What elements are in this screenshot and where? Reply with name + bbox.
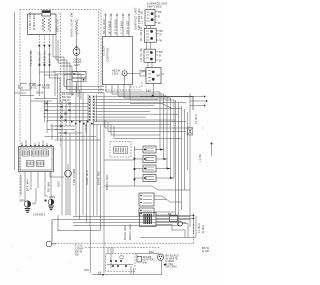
oven control connector dashed box (110, 141, 131, 157)
surface switch SW2 (144, 28, 156, 42)
wire: bends from T1 leads to block (39, 72, 60, 103)
svg-text:GRN: GRN (19, 199, 25, 203)
second bus line with diagonal (130, 104, 172, 109)
arrowheads on exits (160, 149, 173, 180)
wire: runs from connector pins to right bus (96, 97, 191, 120)
wire: feeds from bundle to element boxes (134, 150, 143, 179)
svg-text:R: R (160, 33, 162, 37)
small sensor pair on bottom run (98, 272, 101, 275)
link box at edge (140, 71, 146, 77)
wire: bottom dashed enclosure (52, 220, 194, 244)
svg-text:W TIMER: W TIMER (107, 21, 111, 34)
element box 1 (143, 146, 156, 153)
svg-text:BROIL IGN: BROIL IGN (128, 224, 132, 240)
svg-text:BLK WH: BLK WH (26, 179, 30, 191)
svg-text:RD: RD (75, 253, 79, 257)
svg-text:L1 BLK: L1 BLK (197, 223, 201, 233)
wire: right side border vertical (189, 94, 191, 228)
indicator circle on wire (65, 170, 72, 177)
console dashed bottom (99, 89, 142, 91)
element box 2 (143, 156, 156, 163)
center wire bundle verticals (62, 87, 104, 244)
svg-text:OVEN LIGHT SW: OVEN LIGHT SW (70, 12, 74, 37)
svg-text:GR: GR (32, 202, 36, 206)
right bus verticals (176, 100, 188, 226)
wire: horizontal runs to bundle (61, 87, 104, 93)
wire: cabinet left border inner (19, 10, 21, 199)
small mark under circle (164, 264, 167, 266)
junction bus with dots (133, 146, 135, 186)
indicator lamp inside (122, 71, 127, 76)
SW1 right stubs (155, 12, 158, 23)
svg-text:CONTROL: CONTROL (106, 47, 110, 62)
junction dot (44, 199, 46, 201)
svg-text:BAKE IGN: BAKE IGN (123, 225, 127, 240)
svg-text:BROIL WH: BROIL WH (105, 175, 109, 190)
transformer T1 box (28, 14, 57, 35)
wire: bends joining left (64, 75, 77, 93)
spark module dashed box (106, 254, 135, 271)
svg-text:CHASSIS: CHASSIS (33, 213, 45, 217)
ground symbol 1 (25, 209, 31, 213)
svg-text:L1 BK: L1 BK (198, 153, 202, 162)
element box 4 (143, 175, 156, 182)
svg-text:Y 7 240V: Y 7 240V (119, 21, 123, 34)
svg-text:BK: BK (158, 10, 162, 14)
wire: drops from control box bottom bending right (106, 85, 174, 178)
wire: cabinet top dashed border (20, 9, 101, 11)
svg-text:GRY 120: GRY 120 (56, 19, 60, 32)
wire: SW4 drop to bus (152, 84, 154, 97)
ground symbol 2 (48, 206, 54, 210)
svg-text:GRY: GRY (57, 180, 61, 187)
junction dot row (71, 121, 73, 123)
wire: left border taps (15, 84, 37, 96)
wire below lamp (76, 56, 78, 72)
burner hatch block (144, 214, 151, 224)
clock control box U1 (103, 37, 133, 85)
wire: long horizontal bus lines (52, 216, 190, 225)
wire: verticals into spark area (90, 226, 111, 273)
svg-text:R GR: R GR (202, 249, 209, 253)
junction dots (38, 45, 40, 47)
dashed corner (130, 82, 142, 87)
svg-text:4D 5E: 4D 5E (42, 86, 50, 90)
svg-text:120V: 120V (112, 71, 119, 75)
svg-text:2B 1A: 2B 1A (36, 91, 44, 95)
svg-text:BK CLOCK: BK CLOCK (102, 18, 106, 34)
svg-text:LR 3C 5E: LR 3C 5E (139, 48, 143, 62)
svg-text:SURF BLK: SURF BLK (85, 170, 89, 185)
junction circle on corner (46, 241, 52, 247)
wire: exits to right bus (156, 150, 174, 179)
small component box (170, 216, 178, 222)
SW3 right stubs (156, 52, 159, 61)
far right dot and stub (211, 143, 213, 145)
svg-text:BLK: BLK (149, 250, 154, 254)
small box with X on right (188, 128, 193, 136)
pin wires entering top with arrows (106, 14, 130, 37)
svg-text:RF 2B 4D: RF 2B 4D (139, 27, 143, 41)
coil L1 zigzag (42, 17, 45, 32)
svg-text:SWITCHES: SWITCHES (147, 4, 162, 8)
svg-text:CLOCK: CLOCK (102, 45, 106, 56)
wire: junction row leads (93, 122, 186, 125)
svg-text:R 9 OVEN: R 9 OVEN (113, 19, 117, 34)
small circle component (178, 221, 183, 226)
ladder verticals (45, 100, 71, 141)
wire: mid horizontal runs (104, 160, 190, 190)
pin dot row on relay box top (21, 145, 22, 146)
small arrow mark on bus (151, 95, 155, 98)
junction dots second row (39, 64, 41, 66)
wire from R1 to lamp (76, 33, 78, 48)
svg-text:L1 BLK: L1 BLK (194, 114, 198, 124)
wire: top link to igniter row (135, 254, 159, 257)
connector pin X marks col 2 (93, 96, 95, 121)
igniter terminal box (137, 257, 142, 263)
wire: console dashed right edge pair (98, 11, 100, 94)
svg-text:L1 BLK 120V: L1 BLK 120V (28, 11, 32, 30)
svg-text:W: W (158, 21, 161, 25)
thermostat boxes lower right (139, 193, 154, 206)
right bus verticals bottom (194, 214, 197, 238)
svg-text:120V: 120V (74, 63, 81, 67)
wire: cabinet left border outer (14, 12, 16, 170)
enclosure bottom right line (140, 236, 196, 238)
wire: interbox links (147, 26, 153, 68)
ladder rungs with X joints (44, 103, 89, 120)
coil L2 zigzag (48, 17, 51, 32)
wire: leads continue below labels (31, 47, 50, 85)
wire: feeds into relay box top (22, 84, 51, 147)
wire: dashed rail (85, 246, 160, 248)
wire from lamp to selector (125, 73, 141, 84)
scan speckles (12, 246, 13, 247)
relay coil row 2 (27, 161, 35, 167)
wire: leads to right bus (156, 216, 194, 238)
svg-text:BR: BR (157, 74, 161, 78)
wire: stub run (57, 215, 101, 231)
relay board K1 outer box (19, 147, 54, 172)
wire: right border taps with dots (190, 97, 205, 106)
X junction marks (46, 102, 71, 134)
left tick marks (131, 266, 134, 274)
chassis lamp G2 circle (48, 199, 54, 205)
connector P1 guide columns (88, 95, 96, 123)
door switch box (72, 72, 86, 79)
svg-text:SW: SW (143, 260, 148, 264)
svg-text:R: R (158, 15, 160, 19)
svg-text:W: W (160, 39, 163, 43)
wire: lower bend runs (105, 120, 188, 139)
connector pin X marks col 1 (89, 96, 91, 121)
surface switch SW3 (144, 49, 156, 62)
wire: cross bends below ladder (45, 120, 63, 140)
svg-text:R: R (159, 54, 161, 58)
long bus line below switches (140, 97, 193, 111)
relay coil row 1 (22, 150, 30, 156)
wire: console left dashed edge (60, 13, 62, 147)
svg-text:GR GRN: GR GRN (166, 265, 177, 269)
wire: bottom run (92, 260, 161, 274)
svg-text:L1 2A 3B: L1 2A 3B (140, 11, 144, 24)
svg-text:BK: BK (160, 29, 164, 33)
wire: diagonals joining bus (154, 196, 182, 215)
wire: dashed leads below T1 (39, 36, 49, 45)
SW2 right stubs (156, 31, 159, 41)
chassis lamp G1 circle (24, 201, 30, 207)
oven selector switch SW4 (146, 68, 161, 84)
svg-text:BLK: BLK (18, 86, 23, 90)
svg-text:SURFACE UNIT: SURFACE UNIT (133, 7, 137, 30)
wire: extra nested runs above ladder (31, 72, 81, 102)
svg-text:RD GY: RD GY (62, 98, 71, 102)
oven burner box right (140, 213, 157, 227)
svg-text:GRN: GRN (49, 195, 55, 199)
svg-text:BR 6 SET: BR 6 SET (125, 20, 129, 34)
svg-text:IGN: IGN (84, 268, 89, 272)
svg-text:RD WH: RD WH (47, 182, 51, 192)
terminal block on T1 (42, 11, 51, 17)
svg-text:CONN: CONN (84, 124, 88, 133)
svg-text:N WH: N WH (201, 225, 205, 233)
element box 3 (143, 165, 156, 172)
svg-text:BK: BK (159, 50, 163, 54)
svg-text:2B 3C: 2B 3C (29, 86, 37, 90)
wire: drops into spark box (108, 247, 113, 254)
SW4 left stub (142, 71, 146, 73)
svg-text:N WH 240V: N WH 240V (32, 14, 36, 30)
surface switch SW1 (145, 10, 155, 26)
igniter connector circle (157, 254, 163, 260)
svg-text:W: W (159, 59, 162, 63)
hatch block inside (114, 147, 128, 154)
SW4 right stub (161, 73, 165, 75)
lamp DS1 oval (73, 48, 80, 56)
wire: nested corner bends (53, 35, 72, 97)
svg-text:BAKE RD: BAKE RD (97, 171, 101, 185)
wire: exits from relay box bottom (21, 164, 68, 215)
svg-text:TOD CONN: TOD CONN (72, 169, 76, 185)
electrode dots (110, 260, 112, 262)
svg-text:BLK: BLK (146, 88, 151, 92)
